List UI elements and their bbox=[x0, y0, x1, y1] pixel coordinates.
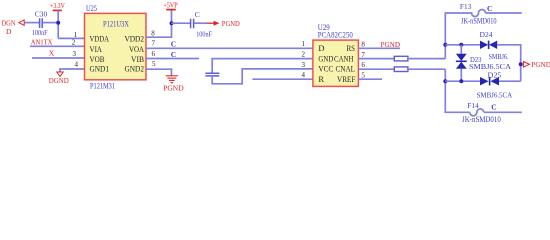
svg-text:SMBJ6.5CA: SMBJ6.5CA bbox=[477, 90, 513, 99]
svg-text:8: 8 bbox=[361, 40, 365, 48]
svg-text:VOB: VOB bbox=[90, 54, 105, 64]
node C30/+3.3V junction bbox=[56, 21, 60, 25]
capacitor (U29 decoupling) bbox=[205, 73, 219, 76]
svg-text:C30: C30 bbox=[35, 9, 48, 18]
capacitor C 100nF (at +5VP) bbox=[191, 10, 213, 39]
wire CANL riser bbox=[445, 69, 470, 112]
svg-text:C: C bbox=[195, 10, 200, 19]
svg-text:CANH: CANH bbox=[334, 53, 354, 63]
wire U29 pin2 net with decoupling cap bbox=[212, 59, 313, 73]
op chip U25 body bbox=[85, 4, 147, 90]
svg-text:PGND: PGND bbox=[531, 60, 550, 69]
svg-text:R: R bbox=[318, 74, 324, 84]
resistor (CANH series) bbox=[394, 56, 408, 61]
wire U29 pin7 to resistor bbox=[358, 58, 394, 60]
wire CANH riser bbox=[445, 13, 472, 59]
node PGND junction bbox=[519, 62, 523, 66]
U25 pin names bbox=[90, 33, 145, 73]
power +5VP bbox=[163, 0, 177, 9]
svg-text:JK-nSMD010: JK-nSMD010 bbox=[462, 115, 501, 124]
svg-text:VDDA: VDDA bbox=[90, 33, 110, 43]
port DGND (off-sheet, left edge) bbox=[2, 19, 25, 36]
node CANH branch bbox=[443, 43, 447, 47]
svg-text:GND: GND bbox=[318, 53, 333, 63]
svg-text:7: 7 bbox=[152, 40, 156, 48]
diode D23 (TVS vertical) bbox=[456, 45, 512, 81]
svg-text:VIB: VIB bbox=[131, 54, 144, 64]
svg-text:C: C bbox=[171, 50, 176, 59]
fuse F14 bbox=[462, 101, 501, 124]
svg-text:C: C bbox=[171, 40, 176, 49]
svg-text:6: 6 bbox=[361, 61, 365, 69]
wire C30 to node bbox=[43, 22, 59, 24]
svg-text:3: 3 bbox=[73, 50, 77, 58]
U29 pin names bbox=[318, 43, 355, 84]
svg-text:100nF: 100nF bbox=[32, 28, 48, 37]
svg-text:D: D bbox=[318, 43, 324, 53]
svg-text:JK-nSMD010: JK-nSMD010 bbox=[461, 17, 497, 26]
svg-text:100nF: 100nF bbox=[196, 30, 212, 39]
power PGND (arrow right of cap) bbox=[207, 19, 240, 28]
diode D25 (TVS horizontal) bbox=[477, 70, 513, 99]
svg-text:+5VP: +5VP bbox=[163, 0, 177, 9]
power +3.3V bbox=[50, 1, 65, 39]
resistor (CANL series) bbox=[394, 67, 408, 72]
svg-text:F13: F13 bbox=[460, 2, 472, 11]
svg-text:PGND: PGND bbox=[163, 84, 184, 93]
net label C / stub wire U25 pin6 bbox=[146, 50, 199, 59]
net label C / wire U25 pin7 to U29 pin1 bbox=[146, 40, 313, 49]
wire D25 to PGND riser bbox=[499, 80, 521, 82]
wire pin4 U25 to DGND bbox=[60, 69, 85, 72]
node D23 bottom bbox=[459, 79, 463, 83]
svg-text:C: C bbox=[491, 102, 496, 111]
svg-text:VOA: VOA bbox=[129, 44, 145, 54]
svg-text:VREF: VREF bbox=[337, 74, 356, 84]
wire resistor to CANH riser bbox=[408, 58, 445, 60]
power PGND (right port) bbox=[523, 60, 550, 69]
svg-text:X: X bbox=[49, 49, 55, 58]
stub wire U29 pin4 bbox=[252, 78, 313, 80]
wire port to C30 bbox=[24, 22, 39, 24]
wire cap to PGND arrow bbox=[194, 22, 207, 24]
net label AN1TX / wire pin2 U25 bbox=[30, 38, 85, 47]
svg-text:4: 4 bbox=[75, 61, 79, 69]
svg-text:U25: U25 bbox=[86, 4, 97, 13]
svg-text:VDD2: VDD2 bbox=[125, 33, 145, 43]
svg-text:6: 6 bbox=[152, 50, 156, 58]
svg-text:VIA: VIA bbox=[90, 44, 103, 54]
net label X / wire pin3 U25 bbox=[32, 49, 85, 59]
fuse F13 bbox=[460, 2, 497, 26]
op chip U29 body bbox=[313, 23, 359, 87]
svg-text:5: 5 bbox=[152, 60, 156, 68]
svg-text:C: C bbox=[487, 4, 492, 13]
wire D24 to PGND riser bbox=[497, 45, 521, 81]
svg-text:RS: RS bbox=[347, 43, 356, 53]
svg-text:GND2: GND2 bbox=[125, 63, 145, 73]
wire U25 pin5 to PGND earth bbox=[146, 69, 172, 75]
stub wire U29 pin5 bbox=[358, 78, 382, 80]
svg-text:F14: F14 bbox=[467, 101, 479, 110]
wire node to capacitor C bbox=[172, 22, 191, 24]
node D23 top bbox=[459, 43, 463, 47]
svg-text:GND1: GND1 bbox=[90, 63, 110, 73]
svg-text:D24: D24 bbox=[480, 30, 493, 39]
node CANL branch bbox=[443, 79, 447, 83]
ground DGND bbox=[49, 72, 70, 85]
svg-text:P121U3X: P121U3X bbox=[103, 19, 129, 29]
capacitor C30 bbox=[32, 9, 48, 37]
wire pin1 U25 bbox=[58, 37, 84, 39]
wire CANH branch to D24 bbox=[445, 44, 480, 46]
svg-text:1: 1 bbox=[302, 40, 306, 48]
wire pin8 U25 to +5VP node bbox=[146, 10, 172, 38]
wire F14 to edge bbox=[484, 111, 522, 113]
wire U29 pin6 to resistor bbox=[358, 68, 394, 70]
svg-text:+3.3V: +3.3V bbox=[50, 1, 65, 10]
svg-text:5: 5 bbox=[361, 71, 365, 79]
node +5VP junction bbox=[170, 21, 174, 25]
svg-text:PCA82C250: PCA82C250 bbox=[318, 31, 353, 40]
svg-text:PGND: PGND bbox=[381, 40, 401, 49]
svg-text:SMBJ6.: SMBJ6. bbox=[489, 52, 509, 61]
wire resistor to CANL riser bbox=[408, 68, 445, 70]
svg-text:3: 3 bbox=[302, 61, 306, 69]
svg-text:DGND: DGND bbox=[49, 76, 70, 85]
wire cap bottom to U29 pin3 bbox=[212, 69, 313, 84]
U25 pin numbers bbox=[72, 30, 156, 69]
svg-text:VCC: VCC bbox=[318, 64, 333, 74]
svg-text:PGND: PGND bbox=[222, 19, 241, 28]
svg-text:CNAL: CNAL bbox=[336, 64, 356, 74]
U29 pin numbers bbox=[302, 40, 366, 80]
svg-text:P121M31: P121M31 bbox=[90, 81, 115, 90]
svg-text:7: 7 bbox=[361, 51, 365, 59]
wire F13 to edge bbox=[486, 12, 522, 14]
svg-text:4: 4 bbox=[302, 71, 306, 79]
svg-text:AN1TX: AN1TX bbox=[31, 38, 53, 47]
svg-text:D: D bbox=[6, 27, 12, 36]
svg-text:2: 2 bbox=[72, 39, 76, 47]
stub wire U29 pin8 / net label PGND bbox=[358, 40, 400, 49]
ground PGND (earth bars under U25) bbox=[166, 76, 178, 83]
wire CANL branch to D25 bbox=[445, 80, 480, 82]
diode D24 (TVS horizontal) bbox=[480, 30, 509, 61]
svg-text:2: 2 bbox=[302, 50, 306, 58]
